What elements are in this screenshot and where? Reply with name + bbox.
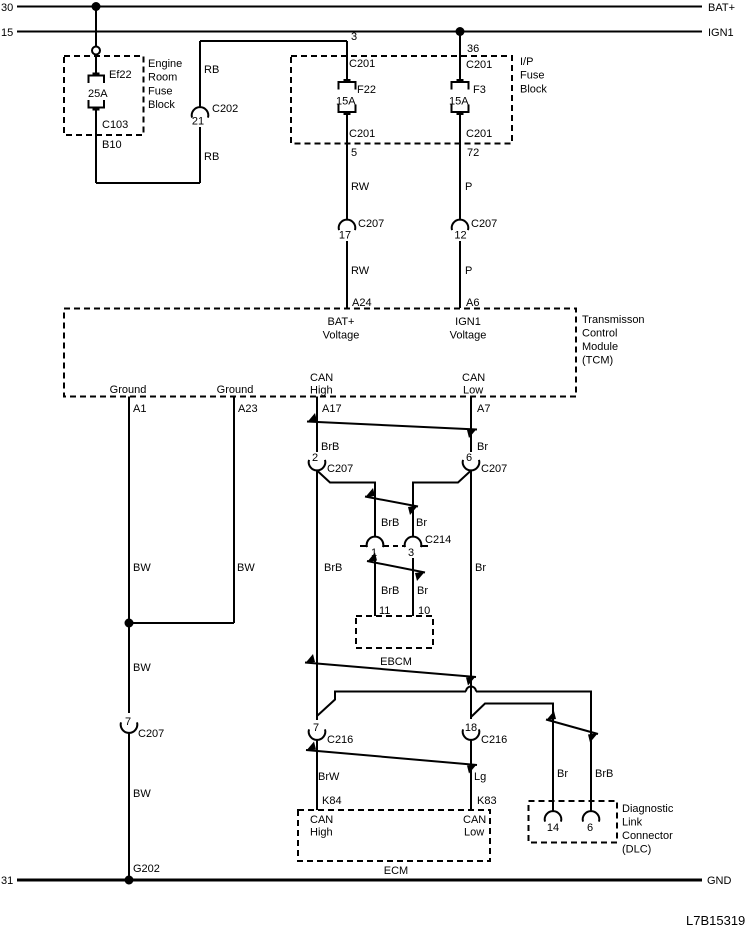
svg-text:C201: C201 [466, 59, 492, 71]
svg-text:RW: RW [351, 265, 370, 277]
svg-text:K84: K84 [322, 795, 342, 807]
svg-text:18: 18 [465, 722, 477, 734]
fuse F22 15A [339, 80, 356, 114]
svg-text:GND: GND [707, 875, 732, 887]
label I/P Fuse Block [520, 56, 547, 95]
wire circle to fuse Ef22 [95, 55, 97, 76]
svg-text:Low: Low [464, 827, 484, 839]
svg-text:Block: Block [148, 99, 175, 111]
bus line 31 GND [17, 879, 702, 882]
svg-text:High: High [310, 385, 333, 397]
svg-text:15A: 15A [336, 96, 356, 108]
fuse Ef22 25A [89, 74, 105, 110]
svg-text:CAN: CAN [310, 814, 333, 826]
svg-text:BrB: BrB [321, 441, 339, 453]
svg-text:Br: Br [417, 585, 428, 597]
svg-text:(DLC): (DLC) [622, 844, 651, 856]
pin name BAT+ Voltage [323, 316, 360, 342]
connector 18 C216 [463, 729, 480, 740]
wire B10 horizontal [96, 182, 200, 184]
connector 21 C202 [192, 107, 209, 118]
wire RW to TCM A24 [346, 241, 348, 308]
wire ground A1 [128, 397, 130, 624]
svg-text:15: 15 [1, 27, 13, 39]
wire ground A23 [233, 397, 235, 624]
wire branch to EBCM left diagonal [317, 471, 375, 538]
svg-text:BrB: BrB [381, 517, 399, 529]
twisted pair symbol 5 [546, 711, 598, 743]
junction dot on line 30 [92, 2, 101, 11]
DLC box [529, 801, 618, 843]
svg-text:BrB: BrB [595, 768, 613, 780]
fuse F3 15A [452, 80, 469, 114]
svg-text:CAN: CAN [310, 372, 333, 384]
junction dot on line 15 [456, 27, 465, 36]
svg-text:Ground: Ground [217, 384, 254, 396]
svg-text:A24: A24 [352, 297, 372, 309]
svg-text:21: 21 [192, 116, 204, 128]
wire RB above connector 21 [199, 41, 201, 107]
pin name CAN High (ECM) [310, 814, 333, 839]
svg-text:Br: Br [475, 562, 486, 574]
svg-text:Fuse: Fuse [148, 85, 172, 97]
svg-text:Ef22: Ef22 [109, 69, 132, 81]
svg-text:6: 6 [587, 822, 593, 834]
connector 7 C216 [309, 729, 326, 740]
wire RB up to connector 21 [199, 127, 201, 183]
svg-text:C207: C207 [327, 463, 353, 475]
svg-text:K83: K83 [477, 795, 497, 807]
svg-text:7: 7 [125, 716, 131, 728]
svg-text:C214: C214 [425, 534, 451, 546]
svg-text:Br: Br [416, 517, 427, 529]
svg-text:RB: RB [204, 151, 219, 163]
wire BW down to connector 7 [128, 623, 130, 713]
engine room fuse block box [64, 56, 144, 135]
connector 17 C207 [339, 220, 356, 231]
svg-text:3: 3 [351, 31, 357, 43]
wire B10 down [95, 110, 97, 184]
connector pin 14 DLC [545, 811, 562, 822]
svg-text:BrW: BrW [318, 771, 340, 783]
svg-text:Ground: Ground [110, 384, 147, 396]
svg-text:36: 36 [467, 43, 479, 55]
wire branch to EBCM right diagonal [413, 471, 471, 538]
svg-text:A23: A23 [238, 403, 258, 415]
wire IGN1 feed to I/P fuse block pin 36 [459, 32, 461, 81]
svg-text:C202: C202 [212, 103, 238, 115]
svg-text:RB: RB [204, 64, 219, 76]
svg-text:ECM: ECM [384, 865, 408, 877]
svg-text:BW: BW [133, 788, 151, 800]
svg-text:B10: B10 [102, 139, 122, 151]
wire CAN High A17 [316, 397, 318, 453]
svg-text:BW: BW [133, 562, 151, 574]
svg-text:5: 5 [351, 147, 357, 159]
wire pin1 to EBCM 11 [374, 558, 376, 616]
connector pin 6 DLC [583, 811, 600, 822]
svg-text:BAT+: BAT+ [708, 2, 735, 14]
label Diagnostic Link Connector (DLC) [622, 803, 674, 856]
EBCM box [356, 616, 433, 648]
ECM box [298, 810, 490, 861]
pin name CAN Low (TCM) [462, 372, 485, 397]
svg-text:CAN: CAN [462, 372, 485, 384]
connector pin 1 C214 [367, 537, 384, 548]
svg-text:C201: C201 [349, 128, 375, 140]
svg-text:72: 72 [467, 147, 479, 159]
wire P to TCM A6 [459, 241, 461, 308]
svg-text:C207: C207 [138, 728, 164, 740]
svg-text:Br: Br [477, 441, 488, 453]
svg-text:C103: C103 [102, 119, 128, 131]
svg-text:A1: A1 [133, 403, 146, 415]
svg-text:7: 7 [313, 722, 319, 734]
svg-text:C216: C216 [327, 734, 353, 746]
svg-text:C201: C201 [349, 58, 375, 70]
label Transmisson Control Module (TCM) [582, 314, 645, 367]
svg-text:BW: BW [133, 662, 151, 674]
pin name IGN1 Voltage [450, 316, 487, 342]
bus line 15 IGN1 [17, 31, 702, 33]
wire horizontal to I/P fuse block pin 3 [200, 40, 347, 42]
svg-text:2: 2 [312, 452, 318, 464]
wire branch CAN High to DLC pin 6 [317, 692, 466, 717]
svg-text:14: 14 [547, 822, 559, 834]
pin name CAN Low (ECM) [463, 814, 486, 839]
svg-text:P: P [465, 181, 472, 193]
wire BW to G202 [128, 733, 130, 880]
I/P fuse block box [291, 56, 512, 144]
svg-text:Transmisson: Transmisson [582, 314, 645, 326]
wire into pin 3 [346, 41, 348, 80]
svg-text:17: 17 [339, 230, 351, 242]
svg-text:F3: F3 [473, 84, 486, 96]
svg-text:30: 30 [1, 2, 13, 14]
wire hop over CAN Low [466, 687, 476, 692]
terminal circle C103 top [92, 47, 100, 55]
wire branch continues to DLC pin 6 [476, 692, 591, 812]
svg-text:Control: Control [582, 328, 617, 340]
svg-text:IGN1: IGN1 [708, 27, 734, 39]
svg-text:C207: C207 [471, 218, 497, 230]
svg-text:BrB: BrB [381, 585, 399, 597]
connector pin 3 C214 [405, 537, 422, 548]
svg-text:F22: F22 [357, 84, 376, 96]
svg-text:A17: A17 [322, 403, 342, 415]
svg-text:BAT+: BAT+ [327, 316, 354, 328]
svg-text:Br: Br [557, 768, 568, 780]
twisted pair symbol 2 [365, 488, 418, 515]
svg-text:IGN1: IGN1 [455, 316, 481, 328]
twisted pair symbol 4 [305, 654, 476, 686]
svg-text:High: High [310, 827, 333, 839]
pin name CAN High (TCM) [310, 372, 333, 397]
svg-text:Connector: Connector [622, 830, 673, 842]
wire BrW to ECM K84 [316, 740, 318, 810]
bus line 30 BAT+ [17, 6, 702, 8]
svg-text:25A: 25A [88, 88, 108, 100]
wire BAT+ feed to engine room fuse block [95, 7, 97, 47]
svg-text:Room: Room [148, 72, 177, 84]
svg-text:RW: RW [351, 181, 370, 193]
svg-text:Lg: Lg [474, 771, 486, 783]
svg-text:Fuse: Fuse [520, 70, 544, 82]
svg-text:Diagnostic: Diagnostic [622, 803, 674, 815]
svg-text:15A: 15A [449, 96, 469, 108]
svg-text:BrB: BrB [324, 562, 342, 574]
wire branch CAN Low to DLC pin 14 [471, 704, 553, 812]
wire CAN Low A7 [470, 397, 472, 453]
svg-text:Block: Block [520, 83, 547, 95]
svg-text:G202: G202 [133, 863, 160, 875]
svg-text:Low: Low [463, 385, 483, 397]
svg-text:Voltage: Voltage [450, 330, 487, 342]
svg-text:31: 31 [1, 875, 13, 887]
svg-text:3: 3 [408, 547, 414, 559]
wire CAN Low main below connector 6 [470, 471, 472, 720]
wire CAN High main below connector 2 [316, 471, 318, 721]
twisted pair symbol 3 [367, 553, 425, 582]
TCM box [64, 309, 576, 397]
svg-text:Link: Link [622, 817, 643, 829]
svg-text:6: 6 [466, 452, 472, 464]
junction dot G202 [125, 876, 134, 885]
twisted pair symbol 6 [306, 742, 477, 774]
svg-text:A7: A7 [477, 403, 490, 415]
svg-text:12: 12 [454, 230, 466, 242]
twisted pair symbol 1 [307, 413, 477, 438]
junction dot ground merge [125, 619, 134, 628]
svg-text:CAN: CAN [463, 814, 486, 826]
svg-text:C207: C207 [481, 463, 507, 475]
svg-text:C207: C207 [358, 218, 384, 230]
wire Lg to ECM K83 [470, 740, 472, 810]
connector 2 C207 [309, 460, 326, 471]
svg-text:C216: C216 [481, 734, 507, 746]
svg-text:C201: C201 [466, 128, 492, 140]
svg-text:Module: Module [582, 341, 618, 353]
svg-text:A6: A6 [466, 297, 479, 309]
connector 7 C207 [121, 722, 138, 733]
svg-text:BW: BW [237, 562, 255, 574]
wire ground merge horizontal [129, 622, 234, 624]
svg-text:Engine: Engine [148, 58, 182, 70]
svg-text:L7B15319: L7B15319 [686, 913, 745, 927]
connector 6 C207 [463, 460, 480, 471]
label Engine Room Fuse Block [148, 58, 182, 111]
connector 12 C207 [452, 220, 469, 231]
svg-text:Voltage: Voltage [323, 330, 360, 342]
wire pin3 to EBCM 10 [412, 558, 414, 616]
svg-text:I/P: I/P [520, 56, 533, 68]
svg-text:(TCM): (TCM) [582, 355, 613, 367]
wire pin 5 down [346, 114, 348, 220]
connector C214 body dashes [360, 545, 428, 547]
svg-text:EBCM: EBCM [380, 656, 412, 668]
wire pin 72 down [459, 114, 461, 220]
svg-text:P: P [465, 265, 472, 277]
